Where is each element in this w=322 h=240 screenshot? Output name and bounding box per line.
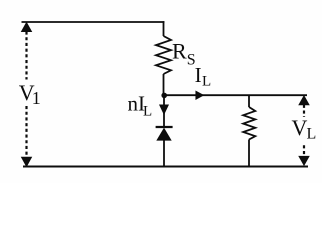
resistor R_L (right load): [243, 95, 255, 168]
V_L measurement arrow (dashed, double-headed): [299, 96, 309, 165]
svg-text:L: L: [202, 73, 211, 89]
svg-text:R: R: [172, 39, 187, 64]
diode D1 (cathode bar up, triangle pointing up): [156, 127, 173, 167]
label V1: [19, 80, 41, 108]
wire middle I_L line: [164, 94, 308, 96]
svg-text:1: 1: [32, 88, 41, 108]
label I_L: [195, 63, 212, 89]
node junction dot: [161, 93, 167, 99]
svg-text:V: V: [292, 115, 308, 140]
svg-text:L: L: [143, 104, 152, 120]
current arrow I_L: [196, 91, 203, 99]
label R_S: [172, 39, 196, 69]
svg-text:L: L: [307, 126, 317, 143]
resistor R_S: [156, 21, 171, 96]
svg-text:I: I: [195, 63, 202, 87]
wire top rail: [22, 21, 165, 23]
current arrow nI_L: [160, 95, 169, 127]
V1 measurement arrow (dashed, double-headed): [22, 23, 32, 167]
wire bottom rail: [23, 166, 308, 168]
label V_L: [292, 115, 317, 143]
label nI_L: [128, 92, 153, 120]
